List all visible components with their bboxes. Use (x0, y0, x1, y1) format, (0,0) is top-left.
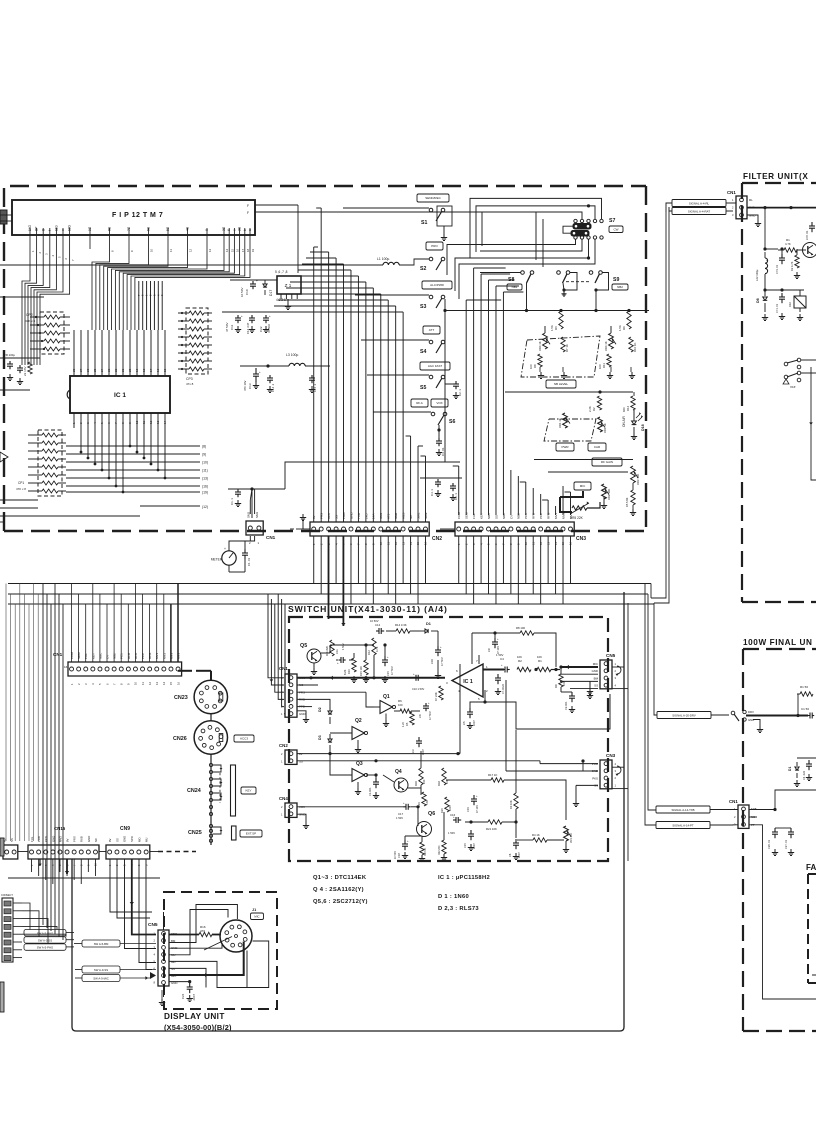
pwr dash-dot box (544, 419, 596, 441)
final thick wire (746, 715, 808, 717)
svg-text:C3: C3 (411, 749, 415, 753)
LED D18 (633, 410, 635, 421)
thick MV3 wire (297, 677, 445, 679)
signal label A-4-RAT (672, 208, 726, 215)
label ACC3 (234, 735, 254, 742)
svg-text:26: 26 (86, 368, 90, 372)
left pin wire bundle (22, 249, 30, 365)
CP1 output lines (66, 445, 200, 447)
svg-text:RXB: RXB (80, 836, 84, 842)
resistor R12 (631, 396, 635, 410)
resistor R9s (559, 674, 563, 687)
capacitor C15s (384, 656, 386, 660)
speaker thick wire (132, 859, 156, 935)
svg-text:PRO: PRO (431, 244, 438, 248)
svg-text:Q 4 : 2SA1162(Y): Q 4 : 2SA1162(Y) (313, 887, 364, 893)
svg-text:12: 12 (149, 420, 153, 424)
svg-text:100P: 100P (473, 720, 476, 726)
svg-text:CN5: CN5 (606, 653, 616, 658)
resistor R10 (629, 337, 633, 352)
svg-text:47 50V: 47 50V (225, 322, 229, 332)
switch S4 (423, 326, 440, 334)
opamp IC1s (452, 664, 483, 697)
capacitor C26 (774, 828, 776, 832)
long left wires (42, 584, 44, 926)
svg-text:GND: GND (748, 718, 754, 722)
svg-text:SS: SS (171, 967, 175, 971)
svg-text:4.7 50V: 4.7 50V (391, 666, 394, 675)
capacitor C13 (255, 368, 257, 374)
thick signal arrows (328, 536, 330, 619)
svg-text:100W FINAL UN: 100W FINAL UN (743, 638, 813, 647)
svg-text:SW A-9-MIC: SW A-9-MIC (93, 977, 109, 981)
potentiometer VR4b (609, 333, 614, 349)
capacitor C15 (311, 375, 313, 378)
svg-text:S5: S5 (420, 385, 426, 391)
svg-text:ON AIR: ON AIR (622, 415, 626, 427)
svg-text:S3: S3 (420, 304, 426, 310)
switch S6 (411, 399, 428, 407)
edge fragment mid (0, 521, 5, 523)
left column fan wires (22, 903, 30, 930)
svg-text:24: 24 (100, 368, 104, 372)
svg-text:R7 22K: R7 22K (434, 692, 438, 701)
SW jump boxes A5 (24, 930, 66, 936)
ground CN1sw (297, 711, 306, 716)
svg-text:CN5: CN5 (148, 922, 158, 928)
svg-text:.0047: .0047 (192, 994, 196, 1001)
svg-text:(11): (11) (202, 469, 208, 473)
svg-text:CAR: CAR (594, 445, 601, 449)
final unit feed wires (648, 594, 656, 810)
IC driver IC1 (70, 376, 170, 413)
svg-text:100P: 100P (518, 852, 521, 858)
capacitor C4w (808, 760, 810, 764)
svg-text:R2: R2 (592, 407, 596, 411)
TXB wires (750, 790, 816, 810)
svg-text:R7 1K: R7 1K (565, 344, 569, 352)
SW jump box A9 MIC (82, 975, 120, 982)
svg-text:e: e (61, 229, 65, 231)
svg-text:47 10V: 47 10V (497, 646, 500, 654)
nb wires (445, 310, 649, 312)
capacitor C27 (790, 828, 792, 832)
svg-text:C1-001: C1-001 (368, 787, 372, 796)
svg-text:16: 16 (156, 368, 160, 372)
svg-text:R6: R6 (554, 326, 558, 330)
resistor R14 (396, 629, 410, 633)
resistor R23 (420, 842, 424, 855)
label RF GAIN (592, 458, 622, 466)
svg-text:R11 82K: R11 82K (325, 646, 329, 656)
svg-text:SS: SS (594, 684, 598, 688)
svg-text:C4: C4 (500, 657, 504, 661)
svg-text:DP: DP (35, 227, 39, 231)
filter unit dashed border (742, 182, 816, 184)
svg-text:5G: 5G (166, 226, 170, 231)
svg-text:C4 .1: C4 .1 (430, 489, 434, 496)
svg-text:470: 470 (200, 929, 205, 933)
svg-text:PRO: PRO (37, 835, 41, 842)
svg-text:Q4: Q4 (395, 769, 402, 775)
switch S5 (420, 362, 450, 370)
svg-text:GND: GND (592, 669, 598, 673)
svg-text:R10: R10 (347, 669, 351, 674)
svg-text:12: 12 (148, 681, 152, 685)
svg-text:Q1: Q1 (383, 694, 390, 700)
capacitor C72 (811, 222, 813, 226)
svg-text:PC2: PC2 (141, 653, 145, 659)
svg-text:a: a (248, 229, 252, 231)
svg-text:PC1: PC1 (120, 653, 124, 659)
svg-text:VR1 1K: VR1 1K (558, 418, 562, 428)
capacitor C2s (571, 692, 573, 696)
CN24 jack chain (210, 754, 212, 845)
svg-text:47K x 8: 47K x 8 (16, 487, 26, 491)
label KEY (241, 787, 256, 794)
svg-text:SW A-9-SS: SW A-9-SS (94, 968, 108, 972)
svg-text:C9: C9 (487, 648, 491, 652)
capacitor C18 (404, 840, 406, 844)
switch S1 (417, 194, 449, 202)
svg-text:+: + (337, 661, 339, 665)
svg-text:C11: C11 (230, 324, 234, 330)
svg-text:SEM: SEM (77, 652, 81, 659)
svg-text:MV3: MV3 (58, 836, 62, 842)
svg-text:D8: D8 (756, 298, 760, 303)
resistor R18 (442, 768, 446, 785)
resistor R2b (597, 396, 601, 410)
svg-text:COM: COM (70, 652, 74, 660)
svg-text:47 50V: 47 50V (267, 324, 271, 333)
capacitor C5s (469, 708, 471, 712)
svg-text:(13): (13) (202, 477, 208, 481)
CN1sw feed curves (268, 594, 284, 678)
svg-text:820: 820 (622, 407, 626, 412)
svg-text:PKS: PKS (592, 776, 598, 780)
resistor R4 (533, 838, 547, 842)
svg-text:1.2K: 1.2K (402, 722, 405, 727)
display unit dashed border (164, 892, 277, 1009)
svg-text:C72 .01: C72 .01 (805, 230, 809, 240)
svg-text:Q2: Q2 (355, 718, 362, 724)
capacitor C6 (515, 839, 517, 843)
svg-text:CN2: CN2 (432, 536, 442, 542)
svg-text:SW A-5-PHO: SW A-5-PHO (37, 946, 54, 950)
svg-text:EXT.SP: EXT.SP (246, 832, 256, 836)
svg-text:ALC/PWR: ALC/PWR (430, 283, 445, 287)
svg-text:RFG: RFG (148, 652, 152, 659)
svg-text:SS: SS (115, 838, 119, 842)
svg-text:4.7K: 4.7K (785, 242, 791, 246)
svg-text:18: 18 (246, 248, 250, 252)
connector CN9 (106, 845, 150, 859)
svg-text:9G: 9G (88, 226, 92, 231)
svg-text:″: ″ (766, 259, 767, 263)
svg-text:X16': X16' (790, 385, 796, 389)
svg-text:R9: R9 (554, 684, 558, 688)
svg-text:D 1 : 1N60: D 1 : 1N60 (438, 894, 469, 900)
svg-text:100: 100 (398, 703, 403, 707)
svg-text:SM1: SM1 (255, 512, 259, 519)
svg-text:VOX: VOX (436, 401, 442, 405)
connector CN1 meter (246, 521, 263, 535)
svg-text:IC 1 : µPC1158H2: IC 1 : µPC1158H2 (438, 875, 490, 881)
final grounds2 (796, 780, 798, 784)
svg-text:R2: R2 (518, 659, 522, 663)
svg-text:10K: 10K (537, 655, 542, 659)
CN2 CN3 drop wires (313, 536, 315, 584)
svg-text:23: 23 (107, 368, 111, 372)
svg-text:C1 .1: C1 .1 (230, 498, 234, 505)
svg-text:R6: R6 (398, 699, 402, 703)
svg-text:5.6K: 5.6K (426, 800, 429, 805)
CN3sw wires (539, 761, 541, 764)
svg-text:IC 1: IC 1 (114, 392, 126, 399)
svg-text:11: 11 (142, 421, 146, 424)
transistor Q1f (803, 243, 816, 258)
connector CN1 filter (736, 196, 747, 219)
filter relay contacts (784, 362, 788, 366)
svg-text:PWR: PWR (562, 445, 570, 449)
connector CN1 final (738, 805, 749, 828)
edge fragment top (0, 210, 7, 224)
svg-text:C13: C13 (248, 383, 252, 389)
svg-text:17: 17 (149, 368, 153, 372)
CN4 wire (297, 806, 404, 808)
switch S2 (426, 242, 443, 250)
svg-text:RL: RL (749, 198, 753, 202)
svg-text:MIC: MIC (580, 484, 586, 488)
svg-text:12: 12 (189, 248, 193, 252)
svg-text:ACC3: ACC3 (240, 737, 248, 741)
svg-text:CN1: CN1 (729, 799, 738, 804)
svg-text:C2 .1: C2 .1 (458, 389, 462, 396)
svg-text:R4 1K: R4 1K (532, 833, 540, 837)
switch unit dashed border (289, 617, 608, 861)
svg-text:SPO: SPO (130, 835, 134, 842)
svg-text:8G: 8G (108, 226, 112, 231)
svg-text:GND: GND (299, 712, 305, 716)
inductor L22 (765, 258, 768, 274)
resistor R11 (607, 354, 611, 367)
svg-text:(12): (12) (202, 505, 208, 509)
svg-text:MV3: MV3 (169, 653, 173, 660)
resistor R1s (537, 667, 551, 671)
svg-text:(19): (19) (202, 491, 208, 495)
capacitor C14 (269, 375, 271, 378)
center bus into IC1 (138, 281, 140, 330)
svg-text:CN3: CN3 (606, 753, 616, 758)
svg-text:(8): (8) (202, 445, 206, 449)
svg-text:CV: CV (105, 655, 109, 659)
svg-text:D1: D1 (788, 767, 792, 771)
svg-text:ATT: ATT (429, 328, 435, 332)
svg-text:FUL: FUL (30, 836, 34, 842)
svg-text:Z 1: Z 1 (285, 283, 292, 288)
svg-text:F: F (247, 211, 249, 215)
svg-text:L22 100µ: L22 100µ (755, 269, 759, 281)
svg-text:(10): (10) (202, 461, 208, 465)
svg-text:L3 100µ: L3 100µ (286, 353, 298, 357)
svg-text:6: 6 (227, 229, 231, 231)
svg-text:R10 1K: R10 1K (633, 343, 637, 352)
svg-text:C11: C11 (335, 649, 339, 654)
svg-text:13: 13 (208, 248, 212, 252)
capacitor C17 (404, 806, 407, 808)
PT wire loop (750, 825, 816, 999)
thick to CN5sw (551, 669, 560, 671)
svg-text:Q5: Q5 (300, 643, 307, 649)
svg-text:470 16V: 470 16V (243, 380, 247, 391)
capacitor C8s (425, 703, 427, 706)
svg-text:VR2 10K: VR2 10K (607, 489, 611, 500)
svg-text:C12 .047: C12 .047 (246, 322, 250, 334)
svg-text:D17: D17 (269, 290, 273, 296)
connector CN1 lower (68, 662, 182, 676)
svg-text:C6: C6 (508, 853, 512, 857)
potentiometer VR1b (598, 417, 603, 432)
svg-text:+: + (241, 314, 243, 318)
svg-text:CN4: CN4 (279, 796, 288, 801)
svg-text:CN1: CN1 (266, 535, 276, 540)
svg-text:C5: C5 (462, 721, 466, 725)
resistor array CP3 (186, 308, 208, 374)
svg-text:8.2K: 8.2K (343, 669, 347, 675)
arrow marks lower (38, 864, 41, 866)
svg-text:VR4 1K: VR4 1K (538, 341, 542, 351)
CN23 connector circle (194, 680, 227, 713)
capacitor C4s (503, 669, 506, 671)
svg-text:Q3: Q3 (356, 761, 363, 767)
svg-text:C17: C17 (398, 812, 404, 816)
svg-text:1.5K: 1.5K (618, 325, 622, 331)
svg-text:10: 10 (135, 420, 139, 424)
svg-text:R18: R18 (437, 781, 441, 786)
hybrid Z1 (277, 276, 301, 294)
svg-text:22: 22 (114, 368, 118, 372)
svg-text:SIGNAL A-4-RL: SIGNAL A-4-RL (689, 202, 710, 206)
CN26 connector circle (210, 714, 212, 721)
svg-text:C19: C19 (466, 807, 470, 812)
svg-text:5 ,6 ,7 ,8: 5 ,6 ,7 ,8 (275, 270, 288, 274)
svg-text:C3 .01: C3 .01 (441, 447, 445, 456)
meter M1 (222, 551, 236, 565)
signal label A-4-RL (672, 200, 726, 207)
svg-text:C7-0022: C7-0022 (501, 683, 505, 694)
svg-text:SEND/REC: SEND/REC (425, 196, 441, 200)
svg-text:NB LEVEL: NB LEVEL (554, 382, 569, 386)
svg-text:10 50V: 10 50V (394, 851, 397, 859)
label MIC J1 (251, 913, 264, 920)
resistor R7s (439, 686, 443, 700)
svg-text:4.7 50V: 4.7 50V (441, 657, 444, 666)
capacitor C11 (222, 311, 272, 313)
capacitor C15b (470, 830, 472, 834)
svg-text:R12: R12 (367, 650, 371, 655)
svg-text:10: 10 (150, 248, 154, 252)
signal label A-14-TXB (656, 806, 710, 813)
svg-text:S4: S4 (420, 349, 426, 355)
svg-text:C24: C24 (181, 993, 185, 999)
svg-text:C2-001: C2-001 (564, 701, 568, 710)
svg-text:CN25: CN25 (188, 830, 202, 836)
svg-text:FILTER UNIT(X: FILTER UNIT(X (743, 172, 808, 181)
svg-text:10G: 10G (68, 224, 72, 231)
capacitor C11s (339, 659, 342, 661)
svg-text:CW: CW (614, 227, 619, 231)
svg-text:27: 27 (79, 368, 83, 372)
svg-text:VR1 1K: VR1 1K (603, 423, 607, 433)
capacitor C3s (418, 737, 420, 741)
resistor array CP1 (38, 430, 62, 496)
svg-text:SW A-5-SS: SW A-5-SS (38, 939, 52, 943)
ground CN1f (748, 215, 759, 220)
svg-text:Q1~3 : DTC114EK: Q1~3 : DTC114EK (313, 875, 367, 881)
svg-text:FA: FA (806, 863, 816, 872)
resistor R20 (445, 797, 449, 812)
svg-text:14: 14 (225, 248, 229, 252)
svg-text:4G: 4G (186, 226, 190, 231)
potentiometer VR1s (564, 826, 569, 841)
svg-text:8V: 8V (65, 838, 69, 842)
svg-text:C18: C18 (397, 853, 401, 858)
svg-text:(9): (9) (202, 453, 206, 457)
svg-text:VR4 1K: VR4 1K (604, 341, 608, 351)
svg-text:DRV: DRV (748, 710, 754, 714)
svg-text:47K x 5: 47K x 5 (25, 319, 36, 323)
svg-text:MV3: MV3 (176, 653, 180, 660)
filter grounds (764, 314, 766, 318)
svg-text:IC 1: IC 1 (463, 679, 473, 685)
resistor R22 (442, 840, 446, 854)
svg-text:GND: GND (87, 836, 91, 842)
connector CN15 (28, 845, 99, 859)
svg-text:25: 25 (93, 368, 97, 372)
wire row through connectors (0, 851, 3, 853)
svg-text:C27 .01: C27 .01 (784, 839, 788, 849)
svg-text:R17 1K: R17 1K (488, 773, 497, 777)
svg-text:CP3: CP3 (186, 377, 193, 381)
svg-text:C16: C16 (430, 659, 434, 664)
svg-text:R15 100: R15 100 (359, 666, 363, 676)
svg-text:R21 10K: R21 10K (486, 827, 497, 831)
filter RAT thick wire (748, 207, 816, 209)
capacitor C16b (453, 819, 456, 821)
svg-text:SIGNAL A-4-RAT: SIGNAL A-4-RAT (688, 210, 710, 214)
svg-text:4.7 50V: 4.7 50V (429, 711, 432, 720)
potentiometer VR4a (543, 333, 548, 349)
svg-text:13: 13 (156, 420, 160, 424)
filter mid wires (765, 248, 778, 250)
svg-text:VR1 10K: VR1 10K (570, 833, 573, 843)
CN5sw gnd wires (560, 673, 598, 675)
row wires (408, 787, 421, 789)
svg-text:MIC: MIC (593, 662, 598, 666)
IC1 bottom pins (73, 413, 75, 428)
svg-text:6G: 6G (147, 226, 151, 231)
svg-text:CN1: CN1 (53, 652, 63, 657)
svg-text:g: g (41, 229, 45, 231)
SW jump box A9 SS (82, 966, 120, 973)
resistor R3 (514, 793, 518, 809)
resistor R8s (520, 631, 534, 635)
ground drv (759, 726, 761, 730)
svg-text:D2: D2 (318, 707, 322, 712)
svg-text:CONNECT: CONNECT (1, 894, 13, 897)
resistor R16d (199, 932, 212, 936)
svg-text:R11: R11 (602, 363, 606, 368)
